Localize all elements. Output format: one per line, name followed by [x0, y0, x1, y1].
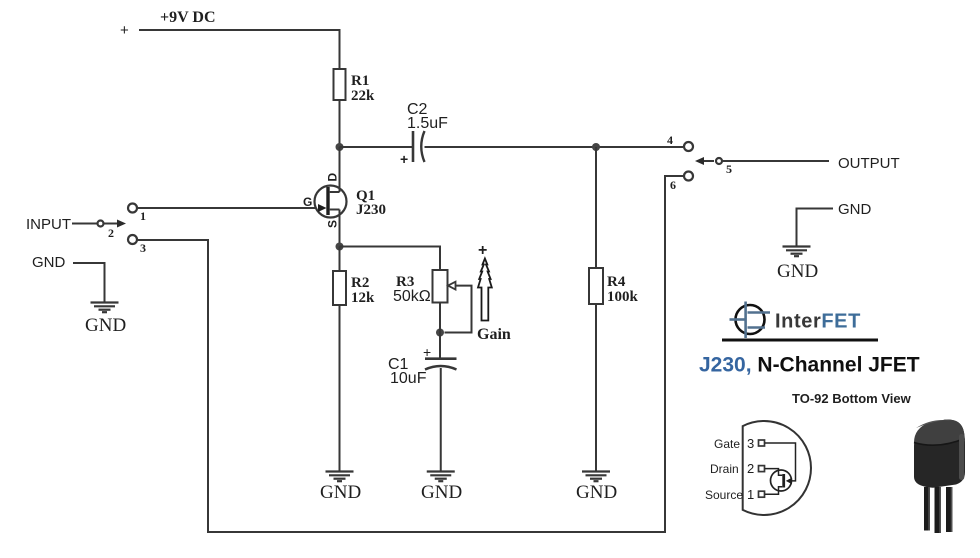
- wire drain node to C2: [340, 146, 414, 148]
- svg-text:OUTPUT: OUTPUT: [838, 155, 900, 172]
- svg-text:6: 6: [670, 178, 676, 192]
- wire source node to R2: [339, 247, 341, 272]
- svg-text:Source: Source: [705, 488, 743, 502]
- logo underline: [722, 339, 878, 342]
- svg-text:2: 2: [108, 226, 114, 240]
- svg-text:+9V DC: +9V DC: [160, 9, 216, 26]
- wire GND output to ground: [797, 209, 834, 247]
- svg-text:22k: 22k: [351, 88, 375, 104]
- pin 2 pad: [759, 466, 765, 472]
- transistor Q1: [303, 173, 386, 229]
- wire C1 to ground: [440, 368, 442, 471]
- node +9V rail wire: [139, 30, 340, 69]
- connector node 5 with arrow: [695, 157, 732, 176]
- capacitor C1: [388, 344, 457, 387]
- wire R2 to ground: [339, 305, 341, 471]
- TO-92 inner JFET symbol: [765, 443, 796, 494]
- capacitor C2: [400, 101, 448, 167]
- svg-text:Drain: Drain: [710, 462, 739, 476]
- input select arrow: [104, 220, 126, 228]
- svg-text:+: +: [400, 151, 408, 167]
- svg-text:3: 3: [140, 241, 146, 255]
- InterFET logo text: [775, 311, 861, 333]
- wire GND label to input ground: [73, 263, 105, 302]
- resistor R4: [589, 268, 639, 305]
- connector node 6: [670, 172, 693, 193]
- svg-text:10uF: 10uF: [390, 370, 427, 387]
- junction source node: [336, 243, 344, 251]
- svg-text:J230: J230: [356, 202, 386, 218]
- svg-text:D: D: [326, 173, 340, 182]
- label +9V DC: [120, 9, 216, 39]
- svg-text:G: G: [303, 195, 312, 209]
- svg-text:GND: GND: [777, 261, 818, 282]
- wire node 1 to gate: [137, 207, 327, 209]
- svg-text:GND: GND: [421, 482, 462, 503]
- wire source down: [339, 210, 341, 247]
- TO-92 package outline: [743, 421, 811, 515]
- svg-text:GND: GND: [85, 315, 126, 336]
- svg-text:R1: R1: [351, 73, 369, 89]
- wire drain to junction: [339, 147, 341, 192]
- svg-text:12k: 12k: [351, 290, 375, 306]
- svg-text:4: 4: [667, 133, 673, 147]
- svg-text:GND: GND: [838, 201, 872, 218]
- connector node 4: [667, 133, 693, 151]
- svg-text:1.5uF: 1.5uF: [407, 115, 448, 132]
- ground C1: [427, 472, 455, 482]
- svg-text:Gain: Gain: [477, 326, 511, 343]
- pin 2 label Drain: [710, 461, 754, 476]
- pin 1 pad: [759, 491, 765, 497]
- wire R3 to C1: [439, 303, 441, 359]
- svg-text:J230, N-Channel JFET: J230, N-Channel JFET: [699, 354, 920, 377]
- wire C2 to node 4: [425, 146, 684, 148]
- wire INPUT to node 2: [72, 223, 97, 225]
- connector node 2: [98, 221, 115, 241]
- svg-text:+: +: [120, 22, 129, 39]
- wire node 5 to OUTPUT: [722, 160, 829, 162]
- svg-text:R2: R2: [351, 275, 369, 291]
- svg-text:50kΩ: 50kΩ: [393, 288, 431, 305]
- svg-text:INPUT: INPUT: [26, 216, 71, 233]
- label J230 N-Channel JFET: [699, 354, 920, 377]
- junction R4 top: [592, 143, 600, 151]
- pin 3 label Gate: [714, 436, 754, 451]
- gain arrow: [478, 259, 492, 321]
- potentiometer R3: [393, 270, 456, 305]
- svg-text:S: S: [326, 220, 340, 228]
- svg-text:TO-92 Bottom View: TO-92 Bottom View: [792, 391, 912, 406]
- svg-text:GND: GND: [32, 254, 66, 271]
- pin 3 pad: [759, 440, 765, 446]
- TO-92 package photo: [914, 419, 965, 533]
- svg-text:2: 2: [747, 461, 754, 476]
- svg-text:5: 5: [726, 162, 732, 176]
- svg-text:100k: 100k: [607, 289, 639, 305]
- ground R4: [582, 472, 610, 482]
- junction drain node: [336, 143, 344, 151]
- svg-text:GND: GND: [576, 482, 617, 503]
- wire node 6 loop to node 3: [137, 176, 684, 532]
- InterFET logo mark: [730, 302, 771, 339]
- junction R3 bottom: [436, 329, 444, 337]
- svg-text:1: 1: [747, 487, 754, 502]
- wire R1 to drain node: [339, 100, 341, 147]
- svg-text:+: +: [423, 344, 431, 360]
- resistor R2: [333, 271, 375, 306]
- wire junction to R4: [595, 147, 597, 268]
- svg-text:InterFET: InterFET: [775, 311, 861, 333]
- resistor R1: [334, 69, 376, 104]
- connector node 1: [128, 204, 146, 224]
- pin 1 label Source: [705, 487, 754, 502]
- svg-text:3: 3: [747, 436, 754, 451]
- ground output: [783, 247, 811, 257]
- wire source node to R3: [340, 247, 441, 271]
- svg-text:R4: R4: [607, 274, 626, 290]
- wire R3 wiper loop: [445, 286, 472, 333]
- ground R2: [326, 472, 354, 482]
- svg-text:+: +: [478, 242, 487, 259]
- wire R4 to ground: [595, 304, 597, 471]
- connector node 3: [128, 235, 146, 255]
- svg-text:GND: GND: [320, 482, 361, 503]
- svg-text:1: 1: [140, 209, 146, 223]
- ground input: [91, 303, 119, 313]
- svg-text:Gate: Gate: [714, 437, 740, 451]
